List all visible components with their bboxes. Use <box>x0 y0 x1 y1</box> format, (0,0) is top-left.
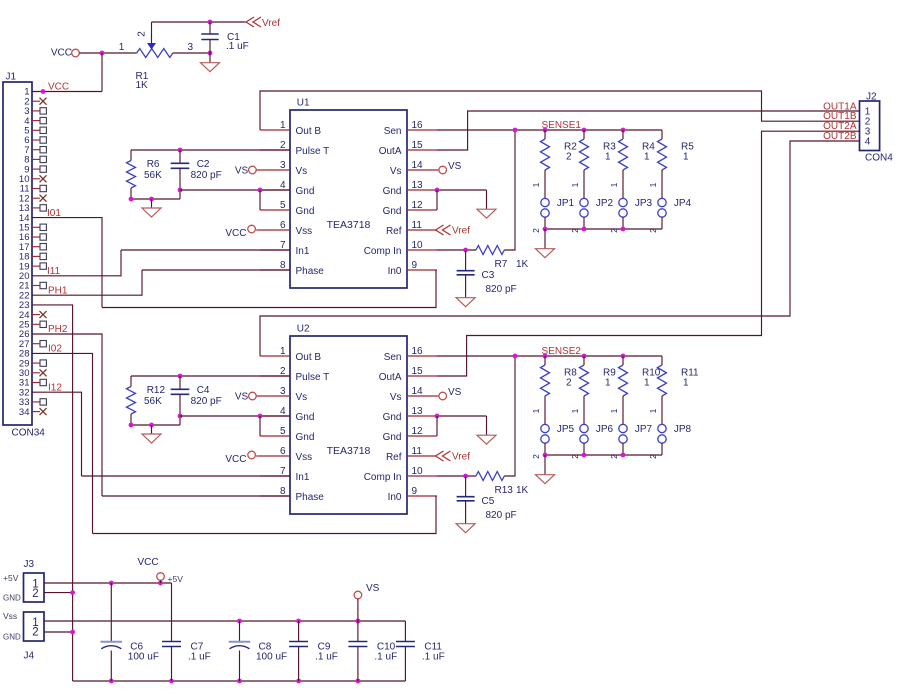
svg-text:56K: 56K <box>144 170 162 181</box>
connector J2 CON4 <box>860 101 880 151</box>
jumper JP6 <box>580 424 588 432</box>
wire net OUT2A : U2 OutA to J2 pin 3 <box>437 131 860 376</box>
resistor R7 1K <box>476 246 504 255</box>
ground (U2 pins 12/13) <box>477 435 496 444</box>
svg-text:VS: VS <box>448 161 462 172</box>
svg-text:R13: R13 <box>495 485 514 496</box>
svg-text:VCC: VCC <box>225 228 246 239</box>
svg-text:VS: VS <box>448 387 462 398</box>
svg-text:+5V: +5V <box>3 573 19 583</box>
wire U1 In1 pin 7 <box>121 249 290 251</box>
wire JP1 to bottom bus <box>544 217 546 229</box>
wire U2 Phase pin 8 <box>102 495 290 497</box>
jumper JP4 <box>658 198 666 206</box>
svg-text:1: 1 <box>683 151 689 162</box>
wire R3 to JP2 <box>583 170 585 198</box>
wire JP4 to bottom bus <box>661 217 663 229</box>
svg-text:R12: R12 <box>147 385 166 396</box>
connector J4 <box>24 612 45 641</box>
svg-text:.1 uF: .1 uF <box>422 652 445 663</box>
svg-text:Vss: Vss <box>296 452 313 463</box>
svg-text:1: 1 <box>648 182 658 187</box>
wire JP2 to bottom bus <box>583 217 585 229</box>
wire ground bus (bottom) <box>73 680 406 682</box>
svg-text:Comp In: Comp In <box>364 246 402 257</box>
svg-text:Phase: Phase <box>296 492 325 503</box>
wire J3 pin 2 to ground bus <box>44 592 73 594</box>
svg-text:JP5: JP5 <box>557 424 575 435</box>
svg-text:C5: C5 <box>482 496 495 507</box>
resistor R3 1 <box>583 130 585 139</box>
svg-text:1: 1 <box>683 377 689 388</box>
ground (under C3) <box>456 298 475 307</box>
wire net I02 : J1 pin 28 to U2 In0 loop <box>32 353 93 533</box>
svg-text:1: 1 <box>570 182 580 187</box>
wire C2 to U1 Gnd pin 4 <box>180 189 290 191</box>
svg-text:SENSE1: SENSE1 <box>542 120 582 131</box>
svg-text:1: 1 <box>644 151 650 162</box>
svg-text:I12: I12 <box>48 383 62 394</box>
wire U2 In0 loop pin 9 <box>93 496 437 534</box>
wire R12/C4 bottom <box>131 424 180 426</box>
svg-text:12: 12 <box>412 200 424 211</box>
wire JP3 to bottom bus <box>622 217 624 229</box>
svg-text:Pulse T: Pulse T <box>296 372 330 383</box>
svg-text:PH1: PH1 <box>48 286 68 297</box>
svg-text:TEA3718: TEA3718 <box>327 445 371 457</box>
wire U1 Gnd pins 12/13 <box>437 189 487 191</box>
ground (U1 pins 12/13) <box>477 209 496 218</box>
svg-text:1: 1 <box>280 346 286 357</box>
svg-text:9: 9 <box>412 260 418 271</box>
svg-text:820 pF: 820 pF <box>191 396 222 407</box>
capacitor C4 820 pF <box>179 376 181 389</box>
IC U2 TEA3718 <box>290 336 407 514</box>
svg-text:1: 1 <box>531 408 541 413</box>
wire net I11 : J1 pin 20 to U1 In1 <box>32 250 121 276</box>
svg-text:Gnd: Gnd <box>296 186 315 197</box>
ground (under R12) <box>151 425 153 434</box>
svg-text:In1: In1 <box>296 246 310 257</box>
resistor R2 2 <box>544 130 546 139</box>
svg-text:Vs: Vs <box>296 166 308 177</box>
svg-text:3: 3 <box>280 386 286 397</box>
svg-text:1: 1 <box>531 182 541 187</box>
svg-text:Gnd: Gnd <box>296 432 315 443</box>
svg-text:Gnd: Gnd <box>383 432 402 443</box>
svg-text:JP2: JP2 <box>596 198 614 209</box>
jumper JP8 <box>658 424 666 432</box>
svg-text:Sen: Sen <box>384 352 402 363</box>
net label Vref (U1 pin 11) <box>436 225 451 235</box>
capacitor C10 .1 uF <box>357 621 359 642</box>
potentiometer R1 1K <box>137 49 173 58</box>
wire net PH1 : J1 pin 22 to U1 Phase <box>32 270 142 295</box>
net label Vref (top) <box>246 17 261 27</box>
wire net SENSE2 : U2 Sen pin 16 <box>437 355 662 357</box>
svg-text:1: 1 <box>605 377 611 388</box>
svg-text:2: 2 <box>137 31 148 37</box>
svg-text:.1 uF: .1 uF <box>315 652 338 663</box>
wire R2 to JP1 <box>544 170 546 198</box>
svg-text:100 uF: 100 uF <box>128 652 159 663</box>
power symbol VCC (U2 pin 6) <box>248 451 256 459</box>
svg-text:+5V: +5V <box>168 574 184 584</box>
capacitor C1 .1 uF <box>209 22 211 34</box>
svg-text:C3: C3 <box>482 270 495 281</box>
svg-text:5: 5 <box>280 426 286 437</box>
svg-text:12: 12 <box>412 426 424 437</box>
svg-text:JP4: JP4 <box>674 198 692 209</box>
svg-text:14: 14 <box>412 160 424 171</box>
svg-text:Vs: Vs <box>390 392 402 403</box>
wire R1 pin 3 to C1 <box>173 52 210 54</box>
J1 unconnected pin terminals (squares) <box>32 110 40 112</box>
wire C4 to U2 Gnd pin 4 <box>180 415 290 417</box>
resistor R9 1 <box>583 356 585 365</box>
svg-text:820 pF: 820 pF <box>486 284 517 295</box>
svg-text:Gnd: Gnd <box>383 186 402 197</box>
resistor R13 1K <box>476 472 504 481</box>
svg-text:4: 4 <box>280 406 286 417</box>
jumper JP5 <box>541 424 549 432</box>
svg-text:1: 1 <box>605 151 611 162</box>
resistor R8 2 <box>544 356 546 365</box>
wire JP5 to bottom bus <box>544 443 546 455</box>
svg-text:I02: I02 <box>48 344 62 355</box>
wire net I01 : J1 pin 14 to U1 In0 loop <box>32 218 102 308</box>
wire R10 to JP7 <box>622 396 624 424</box>
svg-text:3: 3 <box>188 42 194 53</box>
J1 no-connect X marks <box>32 100 40 102</box>
wire net PH2 : J1 pin 26 to U2 Phase <box>32 334 102 496</box>
svg-text:In0: In0 <box>388 266 402 277</box>
svg-text:R7: R7 <box>495 259 508 270</box>
capacitor C6 100 uF <box>110 583 112 642</box>
wire net OUT1B : U1 Out B to J2 pin 2 <box>260 91 860 130</box>
svg-text:OutA: OutA <box>379 146 402 157</box>
svg-text:VCC: VCC <box>225 454 246 465</box>
svg-text:2: 2 <box>531 228 541 233</box>
svg-text:Ref: Ref <box>386 452 402 463</box>
wire R5 to JP4 <box>661 170 663 198</box>
svg-text:10: 10 <box>412 466 424 477</box>
svg-text:J2: J2 <box>866 92 877 103</box>
svg-text:1: 1 <box>570 408 580 413</box>
svg-text:J4: J4 <box>24 651 35 662</box>
resistor R12 56K <box>130 376 132 387</box>
svg-text:Phase: Phase <box>296 266 325 277</box>
wire R1 wiper to Vref <box>152 21 246 23</box>
svg-text:U2: U2 <box>297 324 310 335</box>
IC U1 TEA3718 <box>290 110 407 288</box>
wire jumper bottom bus (JP1-JP4) <box>545 228 662 230</box>
svg-text:VS: VS <box>235 392 249 403</box>
svg-text:VCC: VCC <box>138 557 159 568</box>
svg-text:I01: I01 <box>47 208 61 219</box>
power symbol VS (U1 pin 3) <box>249 166 257 174</box>
wire JP8 to bottom bus <box>661 443 663 455</box>
resistor R11 1 <box>661 356 663 365</box>
svg-text:16: 16 <box>412 120 424 131</box>
wire U2 Comp In pin 10 <box>437 475 476 477</box>
svg-text:OutA: OutA <box>379 372 402 383</box>
svg-text:34: 34 <box>19 407 30 418</box>
svg-text:4: 4 <box>865 137 871 148</box>
svg-text:4: 4 <box>280 180 286 191</box>
wire net SENSE1 : U1 Sen pin 16 <box>437 129 662 131</box>
svg-text:100 uF: 100 uF <box>256 652 287 663</box>
svg-text:Comp In: Comp In <box>364 472 402 483</box>
svg-text:7: 7 <box>280 466 286 477</box>
svg-text:.1 uF: .1 uF <box>374 652 397 663</box>
svg-text:13: 13 <box>412 180 424 191</box>
capacitor C5 820 pF <box>465 476 467 497</box>
wire J1 pin 1 VCC <box>32 91 102 93</box>
capacitor C7 .1 uF <box>171 583 173 642</box>
svg-text:1: 1 <box>609 408 619 413</box>
wire net GND : J1 pin 23 down to bottom ground bus <box>32 305 73 681</box>
svg-text:.1 uF: .1 uF <box>188 652 211 663</box>
svg-text:9: 9 <box>412 486 418 497</box>
svg-text:Vs: Vs <box>390 166 402 177</box>
wire R13 to SENSE2 <box>504 356 515 476</box>
svg-text:1: 1 <box>648 408 658 413</box>
svg-text:SENSE2: SENSE2 <box>542 346 582 357</box>
wire R8 to JP5 <box>544 396 546 424</box>
svg-text:JP8: JP8 <box>674 424 692 435</box>
power symbol VS (U2 pin 14) <box>437 395 439 397</box>
svg-text:7: 7 <box>280 240 286 251</box>
svg-text:I11: I11 <box>47 266 61 277</box>
power symbol VS (bottom) <box>354 591 362 599</box>
svg-text:GND: GND <box>3 633 21 642</box>
svg-text:16: 16 <box>412 346 424 357</box>
svg-text:VS: VS <box>235 166 249 177</box>
svg-text:JP6: JP6 <box>596 424 614 435</box>
svg-text:11: 11 <box>412 220 423 231</box>
power symbol VS (U1 pin 14) <box>437 169 439 171</box>
svg-text:JP3: JP3 <box>635 198 653 209</box>
svg-text:Out B: Out B <box>296 126 322 137</box>
svg-text:JP1: JP1 <box>557 198 575 209</box>
svg-text:1: 1 <box>280 120 286 131</box>
svg-text:13: 13 <box>412 406 424 417</box>
svg-text:Gnd: Gnd <box>296 206 315 217</box>
svg-text:1K: 1K <box>516 485 529 496</box>
connector J1 CON34 <box>3 82 32 425</box>
svg-text:6: 6 <box>280 220 286 231</box>
svg-text:8: 8 <box>280 486 286 497</box>
svg-text:VCC: VCC <box>48 82 69 93</box>
svg-text:JP7: JP7 <box>635 424 653 435</box>
jumper JP3 <box>619 198 627 206</box>
power symbol VCC (U1 pin 6) <box>248 225 256 233</box>
svg-text:Vss: Vss <box>296 226 313 237</box>
ground (under R6) <box>151 199 153 208</box>
jumper JP7 <box>619 424 627 432</box>
svg-text:CON34: CON34 <box>12 428 46 439</box>
svg-text:820 pF: 820 pF <box>486 510 517 521</box>
capacitor C3 820 pF <box>465 250 467 271</box>
svg-text:2: 2 <box>566 377 572 388</box>
wire net OUT2B : U2 Out B to J2 pin 4 <box>260 141 860 356</box>
svg-text:J1: J1 <box>6 72 17 83</box>
wire net VS rail : J4 pin 1 <box>44 620 405 622</box>
wire net +5V rail : J3 pin 1 <box>44 582 172 584</box>
capacitor C9 .1 uF <box>298 621 300 642</box>
svg-text:15: 15 <box>412 366 424 377</box>
wire U2 Gnd pins 12/13 <box>437 415 487 417</box>
resistor R5 1 <box>661 130 663 139</box>
wire R4 to JP3 <box>622 170 624 198</box>
power symbol VS (U2 pin 3) <box>249 392 257 400</box>
svg-text:8: 8 <box>280 260 286 271</box>
wire U1 Pulse T rail <box>131 149 290 151</box>
wire U1 Comp In pin 10 <box>437 249 476 251</box>
wire U1 Gnd pin 5 jog <box>259 190 261 210</box>
wire net OUT1A : U1 OutA to J2 pin 1 <box>437 111 860 150</box>
svg-text:Vref: Vref <box>452 226 470 237</box>
jumper JP2 <box>580 198 588 206</box>
connector J3 <box>24 573 45 602</box>
svg-text:15: 15 <box>412 140 424 151</box>
wire J4 pin 2 to ground bus <box>44 631 73 633</box>
wire U2 In1 pin 7 <box>82 475 291 477</box>
svg-text:5: 5 <box>280 200 286 211</box>
net label Vref (U2 pin 11) <box>436 451 451 461</box>
svg-text:1: 1 <box>644 377 650 388</box>
svg-text:56K: 56K <box>144 396 162 407</box>
ground (under C1) <box>209 53 211 63</box>
svg-text:2: 2 <box>32 627 38 639</box>
resistor R4 1 <box>622 130 624 139</box>
svg-text:1: 1 <box>119 42 125 53</box>
svg-text:820 pF: 820 pF <box>191 170 222 181</box>
svg-text:Ref: Ref <box>386 226 402 237</box>
svg-text:Vref: Vref <box>262 18 280 29</box>
svg-text:PH2: PH2 <box>48 324 68 335</box>
capacitor C8 100 uF <box>239 621 241 642</box>
svg-text:10: 10 <box>412 240 424 251</box>
wire U1 Phase pin 8 <box>142 269 290 271</box>
svg-text:Sen: Sen <box>384 126 402 137</box>
svg-text:CON4: CON4 <box>865 152 893 163</box>
svg-text:2: 2 <box>32 588 38 600</box>
svg-text:Out B: Out B <box>296 352 322 363</box>
capacitor C11 .1 uF <box>404 621 406 642</box>
wire VCC to R1 pin 1 <box>79 52 136 54</box>
jumper JP1 <box>541 198 549 206</box>
resistor R10 1 <box>622 356 624 365</box>
wire R9 to JP6 <box>583 396 585 424</box>
svg-text:Gnd: Gnd <box>383 206 402 217</box>
capacitor C2 820 pF <box>179 150 181 163</box>
svg-text:TEA3718: TEA3718 <box>327 219 371 231</box>
power symbol VCC (bottom +5V) <box>157 573 165 581</box>
svg-text:GND: GND <box>3 594 21 603</box>
svg-text:1: 1 <box>609 182 619 187</box>
wire U1 In0 loop pin 9 <box>102 270 436 308</box>
ground (under JP5) <box>544 455 546 475</box>
svg-text:C4: C4 <box>197 385 210 396</box>
svg-text:2: 2 <box>280 140 286 151</box>
svg-text:2: 2 <box>531 454 541 459</box>
svg-text:OUT2B: OUT2B <box>823 131 857 142</box>
svg-text:1K: 1K <box>516 259 529 270</box>
resistor R6 56K <box>130 150 132 161</box>
wire JP6 to bottom bus <box>583 443 585 455</box>
svg-text:C2: C2 <box>197 159 210 170</box>
svg-text:In1: In1 <box>296 472 310 483</box>
wire JP7 to bottom bus <box>622 443 624 455</box>
svg-text:Vref: Vref <box>452 452 470 463</box>
svg-text:14: 14 <box>412 386 424 397</box>
svg-text:.1 uF: .1 uF <box>226 41 249 52</box>
wire U2 Gnd pin 5 jog <box>259 416 261 436</box>
svg-text:U1: U1 <box>297 98 310 109</box>
svg-text:VS: VS <box>366 583 380 594</box>
wire U2 Pulse T rail <box>131 375 290 377</box>
svg-text:J3: J3 <box>24 559 35 570</box>
svg-text:R6: R6 <box>147 159 160 170</box>
svg-text:Gnd: Gnd <box>383 412 402 423</box>
svg-text:1K: 1K <box>136 80 149 91</box>
svg-text:Vs: Vs <box>296 392 308 403</box>
svg-text:2: 2 <box>280 366 286 377</box>
wire R11 to JP8 <box>661 396 663 424</box>
svg-text:In0: In0 <box>388 492 402 503</box>
ground (under JP1) <box>544 229 546 249</box>
svg-text:3: 3 <box>280 160 286 171</box>
svg-text:6: 6 <box>280 446 286 457</box>
svg-text:11: 11 <box>412 446 423 457</box>
svg-text:VCC: VCC <box>51 48 72 59</box>
wire net I12 : J1 pin 32 to U2 In1 <box>32 392 82 476</box>
wire R7 to SENSE1 <box>504 130 515 250</box>
svg-text:Vss: Vss <box>3 611 17 621</box>
wire jumper bottom bus (JP5-JP8) <box>545 454 662 456</box>
ground (under C5) <box>456 524 475 533</box>
svg-text:2: 2 <box>566 151 572 162</box>
wire VCC down to J1 pin 1 <box>101 53 103 92</box>
svg-text:Pulse T: Pulse T <box>296 146 330 157</box>
svg-text:Gnd: Gnd <box>296 412 315 423</box>
wire R6/C2 bottom <box>131 198 180 200</box>
